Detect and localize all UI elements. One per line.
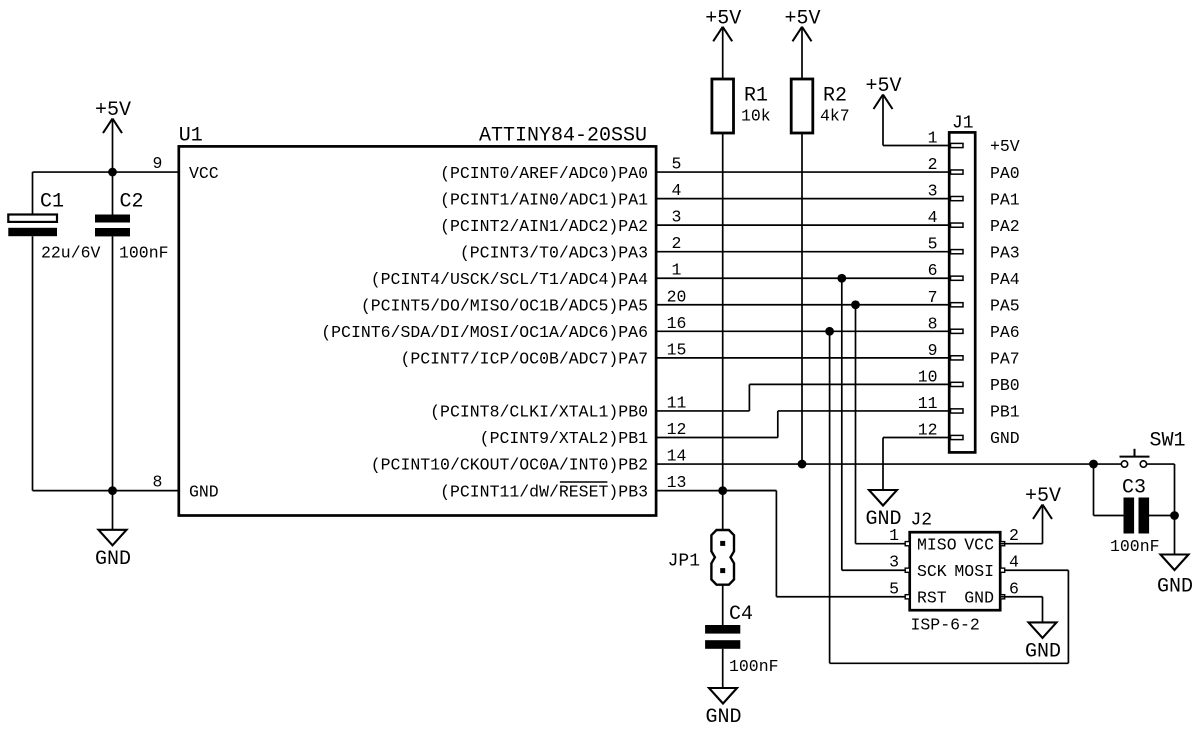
wire R2 top lead [801, 27, 803, 79]
svg-text:GND: GND [964, 588, 994, 607]
ic U1 body [179, 146, 656, 515]
svg-text:PA7: PA7 [990, 350, 1020, 369]
wire PB0 riser [748, 384, 750, 411]
pin 1 PA4 name+number [371, 261, 682, 289]
svg-text:PA0: PA0 [990, 164, 1020, 183]
svg-text:100nF: 100nF [119, 244, 169, 263]
wire RST to J2 pin5 [776, 596, 909, 598]
svg-text:PA4: PA4 [990, 270, 1020, 289]
wire C1 top lead [32, 172, 34, 215]
node C3 right junction [1170, 511, 1179, 520]
connector J1 pin 10 (PB0) [918, 367, 1020, 395]
node GND junction dot [108, 486, 117, 495]
wire PB3 to JP1 [722, 491, 724, 530]
wire PB1 riser [777, 411, 779, 438]
wire PB0 stub [656, 410, 749, 412]
wire MOSI bottom run [830, 662, 1069, 664]
connector J2 body [910, 532, 1001, 610]
svg-text:2: 2 [1009, 526, 1019, 545]
wire PA6 row [656, 330, 949, 332]
wire GND stem [112, 491, 114, 530]
node PA4/SCK junction [837, 274, 846, 283]
pin 9 number [153, 154, 163, 173]
svg-text:MOSI: MOSI [954, 562, 994, 581]
svg-text:8: 8 [153, 473, 163, 492]
wire MISO to J2 pin1 [856, 543, 910, 545]
svg-text:11: 11 [918, 394, 938, 413]
wire J2 GND lead [1000, 596, 1042, 598]
wire C4 to ground [722, 649, 724, 688]
svg-text:12: 12 [918, 421, 938, 440]
svg-text:(PCINT3/T0/ADC3)PA3: (PCINT3/T0/ADC3)PA3 [460, 243, 648, 262]
wire PA1 row [656, 198, 949, 200]
svg-text:4: 4 [1009, 553, 1019, 572]
svg-text:(PCINT6/SDA/DI/MOSI/OC1A/ADC6): (PCINT6/SDA/DI/MOSI/OC1A/ADC6)PA6 [321, 323, 648, 342]
connector J1 pin 1 (+5V) [928, 129, 1020, 157]
capacitor C3 [1110, 477, 1160, 557]
jumper JP1 [668, 530, 734, 585]
wire PA0 row [656, 171, 949, 173]
wire J1 pin10 row [749, 383, 949, 385]
svg-text:2: 2 [928, 155, 938, 174]
wire R1 bottom lead [722, 133, 724, 491]
svg-text:9: 9 [928, 341, 938, 360]
svg-text:PA6: PA6 [990, 323, 1020, 342]
svg-text:10k: 10k [741, 107, 771, 126]
wire PA5 row [656, 304, 949, 306]
svg-text:(PCINT7/ICP/OC0B/ADC7)PA7: (PCINT7/ICP/OC0B/ADC7)PA7 [400, 350, 648, 369]
svg-text:SCK: SCK [917, 562, 947, 581]
wire MOSI right riser [1067, 570, 1069, 663]
node PB2/SW1/C3 junction [1089, 460, 1098, 469]
svg-text:J2: J2 [911, 511, 933, 531]
power +5V symbol (J1) [865, 75, 901, 109]
wire R2 bottom lead [801, 133, 803, 464]
wire J2 VCC riser [1042, 505, 1044, 544]
svg-text:U1: U1 [179, 125, 203, 148]
svg-text:3: 3 [889, 553, 899, 572]
svg-text:C1: C1 [40, 191, 64, 214]
wire J1 GND drop [882, 438, 884, 491]
wire VCC rail to U1 pin 9 [33, 171, 179, 173]
svg-text:10: 10 [918, 367, 938, 386]
svg-text:3: 3 [928, 182, 938, 201]
node PA6/MOSI junction [825, 327, 834, 336]
svg-text:(PCINT2/AIN1/ADC2)PA2: (PCINT2/AIN1/ADC2)PA2 [440, 217, 648, 236]
pin 11 PB0 name+number [430, 393, 686, 421]
svg-text:GND: GND [1157, 576, 1193, 599]
pin 8 GND name [189, 482, 219, 501]
wire J2 VCC lead [1000, 543, 1042, 545]
connector J2 pins 5/6 (RST/GND) [889, 579, 1019, 607]
connector J1 pin 4 (PA2) [928, 208, 1020, 236]
pin 20 PA5 name+number [361, 287, 687, 315]
svg-text:PB0: PB0 [990, 376, 1020, 395]
connector J1 pin 3 (PA1) [928, 182, 1020, 210]
wire J2 GND drop [1042, 597, 1044, 623]
connector J1 pin 8 (PA6) [928, 314, 1020, 342]
wire MISO riser [855, 305, 857, 544]
svg-text:11: 11 [667, 393, 687, 412]
wire PB3 stub [656, 490, 776, 492]
svg-text:PA3: PA3 [990, 243, 1020, 262]
svg-text:(PCINT4/USCK/SCL/T1/ADC4)PA4: (PCINT4/USCK/SCL/T1/ADC4)PA4 [371, 270, 648, 289]
svg-text:4k7: 4k7 [820, 107, 850, 126]
svg-text:(PCINT5/DO/MISO/OC1B/ADC5)PA5: (PCINT5/DO/MISO/OC1B/ADC5)PA5 [361, 296, 648, 315]
svg-text:8: 8 [928, 314, 938, 333]
pin 8 number [153, 473, 163, 492]
ground symbol (left) [95, 530, 131, 571]
pin 5 PA0 name+number [440, 155, 681, 183]
wire RST riser [775, 491, 777, 597]
svg-text:R1: R1 [744, 85, 768, 108]
wire SCK riser [841, 278, 843, 570]
switch SW1 [1120, 430, 1186, 468]
wire C3 left drop [1093, 464, 1095, 515]
svg-text:2: 2 [672, 234, 682, 253]
svg-text:1: 1 [889, 526, 899, 545]
svg-text:6: 6 [928, 261, 938, 280]
svg-text:9: 9 [153, 154, 163, 173]
wire SCK to J2 pin3 [842, 569, 910, 571]
wire MOSI riser [829, 331, 831, 663]
label U1 value ATTINY84-20SSU [479, 125, 647, 148]
ground symbol (SW1/C3) [1157, 555, 1193, 599]
capacitor C1 [8, 191, 100, 263]
svg-text:100nF: 100nF [1110, 537, 1160, 556]
resistor R1 [712, 79, 771, 133]
svg-text:5: 5 [889, 579, 899, 598]
svg-text:(PCINT8/CLKI/XTAL1)PB0: (PCINT8/CLKI/XTAL1)PB0 [430, 403, 648, 422]
label J2 value ISP-6-2 [911, 616, 980, 635]
node PB3/R1/JP1 junction [718, 486, 727, 495]
ground symbol (J2) [1025, 622, 1061, 663]
svg-text:VCC: VCC [964, 535, 994, 554]
wire GND rail to U1 pin 8 [33, 490, 179, 492]
pin 12 PB1 name+number [480, 420, 687, 448]
connector J1 pin 11 (PB1) [918, 394, 1020, 422]
svg-text:7: 7 [928, 288, 938, 307]
ground symbol (J1) [865, 490, 901, 531]
wire +5V stem to VCC net [112, 119, 114, 172]
wire SW1 to right riser [1147, 463, 1175, 465]
svg-text:5: 5 [928, 235, 938, 254]
node R2/PB2 junction [798, 460, 807, 469]
pin 15 PA7 name+number [400, 340, 686, 368]
svg-text:3: 3 [672, 208, 682, 227]
ground symbol (C4) [705, 688, 741, 729]
pin 13 PB3 name+number [440, 473, 686, 501]
capacitor C2 [95, 191, 169, 263]
svg-text:PB1: PB1 [990, 403, 1020, 422]
svg-text:GND: GND [705, 706, 741, 729]
svg-text:SW1: SW1 [1150, 430, 1186, 453]
svg-text:VCC: VCC [189, 164, 219, 183]
connector J1 pin 7 (PA5) [928, 288, 1020, 316]
svg-text:J1: J1 [952, 114, 974, 134]
resistor R2 [791, 79, 850, 133]
wire PA2 row [656, 224, 949, 226]
svg-text:15: 15 [667, 340, 687, 359]
wire JP1 to C4 [722, 585, 724, 626]
svg-text:ISP-6-2: ISP-6-2 [911, 616, 980, 635]
svg-text:16: 16 [667, 314, 687, 333]
connector J1 pin 5 (PA3) [928, 235, 1020, 263]
svg-text:C3: C3 [1122, 477, 1146, 500]
wire J1 pin12 GND stub [883, 437, 949, 439]
svg-text:GND: GND [189, 482, 219, 501]
connector J1 pin 6 (PA4) [928, 261, 1020, 289]
power +5V symbol (R1) [705, 7, 741, 41]
wire PB3 to riser [723, 490, 777, 492]
svg-text:PA2: PA2 [990, 217, 1020, 236]
wire R1 top lead [722, 27, 724, 79]
svg-text:100nF: 100nF [729, 657, 779, 676]
pin 14 PB2 name+number [371, 447, 687, 475]
pin 3 PA2 name+number [440, 208, 681, 236]
wire PA7 row [656, 357, 949, 359]
wire C2 bottom lead [112, 236, 114, 490]
svg-text:22u/6V: 22u/6V [41, 244, 101, 263]
connector J1 pin 2 (PA0) [928, 155, 1020, 183]
svg-text:C4: C4 [729, 603, 753, 626]
wire junction to SW1 [1094, 463, 1122, 465]
node PA5/MISO junction [851, 300, 860, 309]
connector J2 pins 1/2 (MISO/VCC) [889, 526, 1019, 554]
wire PA4 row [656, 277, 949, 279]
svg-text:GND: GND [95, 548, 131, 571]
label J2 reference [911, 511, 933, 531]
svg-text:20: 20 [667, 287, 687, 306]
svg-text:+5V: +5V [1025, 485, 1061, 508]
wire C2 top lead [112, 172, 114, 215]
svg-text:MISO: MISO [917, 535, 957, 554]
svg-text:ATTINY84-20SSU: ATTINY84-20SSU [479, 125, 647, 148]
svg-text:(PCINT0/AREF/ADC0)PA0: (PCINT0/AREF/ADC0)PA0 [440, 164, 648, 183]
pin 9 VCC name [189, 164, 219, 183]
wire C1 bottom lead [32, 236, 34, 490]
svg-text:1: 1 [672, 261, 682, 280]
pin 16 PA6 name+number [321, 314, 686, 342]
wire right riser to C3 [1174, 464, 1176, 554]
connector J1 pin 12 (GND) [918, 421, 1020, 449]
wire PA3 row [656, 251, 949, 253]
svg-text:(PCINT11/dW/RESET)PB3: (PCINT11/dW/RESET)PB3 [440, 482, 648, 501]
pin 4 PA1 name+number [440, 181, 681, 209]
wire C3 right lead [1149, 515, 1175, 517]
wire +5V stem to J1 pin1 [882, 95, 884, 146]
svg-text:(PCINT10/CKOUT/OC0A/INT0)PB2: (PCINT10/CKOUT/OC0A/INT0)PB2 [371, 456, 648, 475]
svg-text:5: 5 [672, 155, 682, 174]
label J1 reference [952, 114, 974, 134]
svg-text:4: 4 [928, 208, 938, 227]
svg-text:(PCINT1/AIN0/ADC1)PA1: (PCINT1/AIN0/ADC1)PA1 [440, 190, 648, 209]
wire PB1 stub [656, 437, 778, 439]
connector J1 body [949, 132, 975, 452]
capacitor C4 [705, 603, 778, 676]
svg-text:12: 12 [667, 420, 687, 439]
svg-text:(PCINT9/XTAL2)PB1: (PCINT9/XTAL2)PB1 [480, 429, 648, 448]
connector J2 pins 3/4 (SCK/MOSI) [889, 553, 1019, 581]
svg-text:C2: C2 [120, 191, 144, 214]
power +5V symbol (left rail) [95, 99, 131, 133]
power +5V symbol (J2) [1025, 485, 1061, 519]
label U1 reference [179, 125, 203, 148]
svg-text:JP1: JP1 [668, 552, 700, 572]
wire J1 pin1 row [883, 145, 949, 147]
svg-text:GND: GND [990, 429, 1020, 448]
svg-text:RST: RST [917, 588, 947, 607]
svg-text:PA1: PA1 [990, 190, 1020, 209]
svg-text:PA5: PA5 [990, 296, 1020, 315]
svg-text:13: 13 [667, 473, 687, 492]
svg-text:4: 4 [672, 181, 682, 200]
svg-text:14: 14 [667, 447, 687, 466]
svg-text:+5V: +5V [990, 137, 1020, 156]
connector J1 pin 9 (PA7) [928, 341, 1020, 369]
wire J1 pin11 row [778, 410, 949, 412]
svg-text:6: 6 [1009, 579, 1019, 598]
pin 2 PA3 name+number [460, 234, 682, 262]
wire C3 left lead [1094, 515, 1125, 517]
wire MOSI to J2 pin4 [1000, 569, 1068, 571]
svg-text:1: 1 [928, 129, 938, 148]
power +5V symbol (R2) [784, 7, 820, 41]
svg-text:R2: R2 [823, 85, 847, 108]
node VCC junction dot [108, 168, 117, 177]
wire PB2 row [656, 463, 1093, 465]
svg-text:GND: GND [1025, 640, 1061, 663]
